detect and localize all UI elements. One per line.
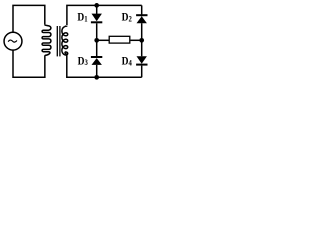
diode D2 <box>136 14 147 16</box>
transformer core line 1 <box>56 26 58 56</box>
svg-text:3: 3 <box>85 58 89 68</box>
wire left loop bottom <box>13 50 45 77</box>
wire D3 top stem <box>96 40 98 57</box>
label D1 <box>77 12 88 24</box>
wire D1 top stem <box>96 5 98 14</box>
transformer core line 2 <box>59 26 61 56</box>
diode D4 <box>137 56 147 64</box>
transformer secondary winding <box>65 26 67 27</box>
wire middle right <box>131 39 142 41</box>
wire D1 bottom stem <box>96 23 98 40</box>
wire middle left <box>97 39 109 41</box>
diode D3 <box>91 56 102 58</box>
junction node top <box>94 3 99 8</box>
wire secondary bottom to bridge <box>67 55 142 77</box>
wire D4 top stem <box>141 40 143 56</box>
label D3 <box>78 56 89 68</box>
wire secondary top to bridge <box>67 5 142 25</box>
AC source <box>4 32 22 50</box>
label D4 <box>122 56 133 68</box>
wire D3 bottom stem <box>96 65 98 77</box>
wire D4 bottom stem <box>141 66 143 78</box>
wire D2 top stem <box>141 5 143 16</box>
wire D2 bottom stem <box>141 23 143 40</box>
diode D1 <box>92 14 102 22</box>
junction node mid-right <box>139 38 144 43</box>
junction node bottom <box>94 75 99 80</box>
wire left loop top <box>13 5 45 32</box>
transformer primary winding <box>42 25 51 56</box>
junction node mid-left <box>94 38 99 43</box>
svg-text:4: 4 <box>129 58 133 68</box>
svg-text:1: 1 <box>84 14 88 24</box>
resistor R load <box>109 36 130 43</box>
label D2 <box>122 12 133 24</box>
svg-text:2: 2 <box>129 14 133 24</box>
